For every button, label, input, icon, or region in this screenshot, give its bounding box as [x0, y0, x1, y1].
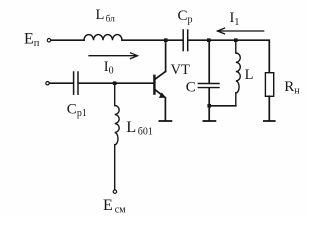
svg-text:L: L [245, 67, 254, 83]
svg-text:Cр: Cр [178, 8, 193, 26]
node C-L junction [207, 104, 211, 108]
label Lб01 [126, 117, 153, 138]
emitter with arrow [155, 90, 165, 98]
svg-text:C: C [186, 79, 196, 95]
collector wire [165, 40, 167, 71]
wire L bottom to C-L junction [209, 105, 236, 107]
transistor VT [154, 40, 166, 120]
label VT [171, 62, 190, 78]
arrow I0 (current direction) [89, 53, 138, 59]
wire Rн to ground [268, 96, 270, 120]
label I1 [230, 10, 240, 28]
capacitor Cр1 [74, 72, 78, 94]
svg-text:Lб01: Lб01 [126, 117, 153, 138]
svg-text:Rн: Rн [284, 79, 300, 97]
svg-text:Eп: Eп [24, 31, 40, 50]
label Eсм (bias node) [103, 197, 126, 215]
svg-text:Cр1: Cр1 [67, 101, 87, 119]
svg-text:I1: I1 [230, 10, 240, 28]
svg-text:Eсм: Eсм [103, 197, 126, 215]
capacitor Cр [183, 30, 188, 51]
wire Cр1 to base [79, 82, 154, 84]
label Cр1 [67, 101, 87, 119]
inductor Lбл [84, 35, 122, 41]
wire junction to ground [208, 106, 210, 120]
base bar [153, 76, 155, 94]
ground (Rн) [264, 120, 275, 122]
node L branch junction [234, 38, 238, 42]
inductor Lб01 [115, 83, 120, 190]
wire C down to junction [208, 88, 210, 106]
ground (emitter) [159, 120, 171, 122]
emitter wire down [164, 98, 166, 121]
node base junction [113, 81, 117, 85]
terminal input (signal) [46, 82, 49, 85]
label I0 [104, 59, 114, 77]
wire input terminal to Cр1 [49, 82, 72, 84]
wire Cр to right corner and down to Rн [188, 40, 269, 72]
label Eп (supply node) [24, 31, 40, 50]
label Lбл [96, 7, 116, 25]
inductor L [236, 40, 241, 106]
label C [186, 79, 196, 95]
ground (C-L branch) [203, 120, 215, 122]
terminal Eсм [113, 190, 116, 193]
label Cр [178, 8, 193, 26]
label L [245, 67, 254, 83]
label Rн [284, 79, 300, 97]
capacitor C [198, 84, 219, 88]
arrow I1 (current direction) [218, 28, 264, 34]
wire top junction down to C [208, 40, 210, 83]
wire Eп terminal to Lбл [51, 39, 84, 41]
svg-text:VT: VT [171, 62, 190, 78]
node C branch junction [207, 38, 211, 42]
svg-text:Lбл: Lбл [96, 7, 116, 25]
wire Lбл to Cр [122, 39, 182, 41]
resistor Rн [265, 73, 273, 97]
svg-text:I0: I0 [104, 59, 114, 77]
terminal Eп [47, 39, 50, 42]
node collector junction [164, 38, 168, 42]
